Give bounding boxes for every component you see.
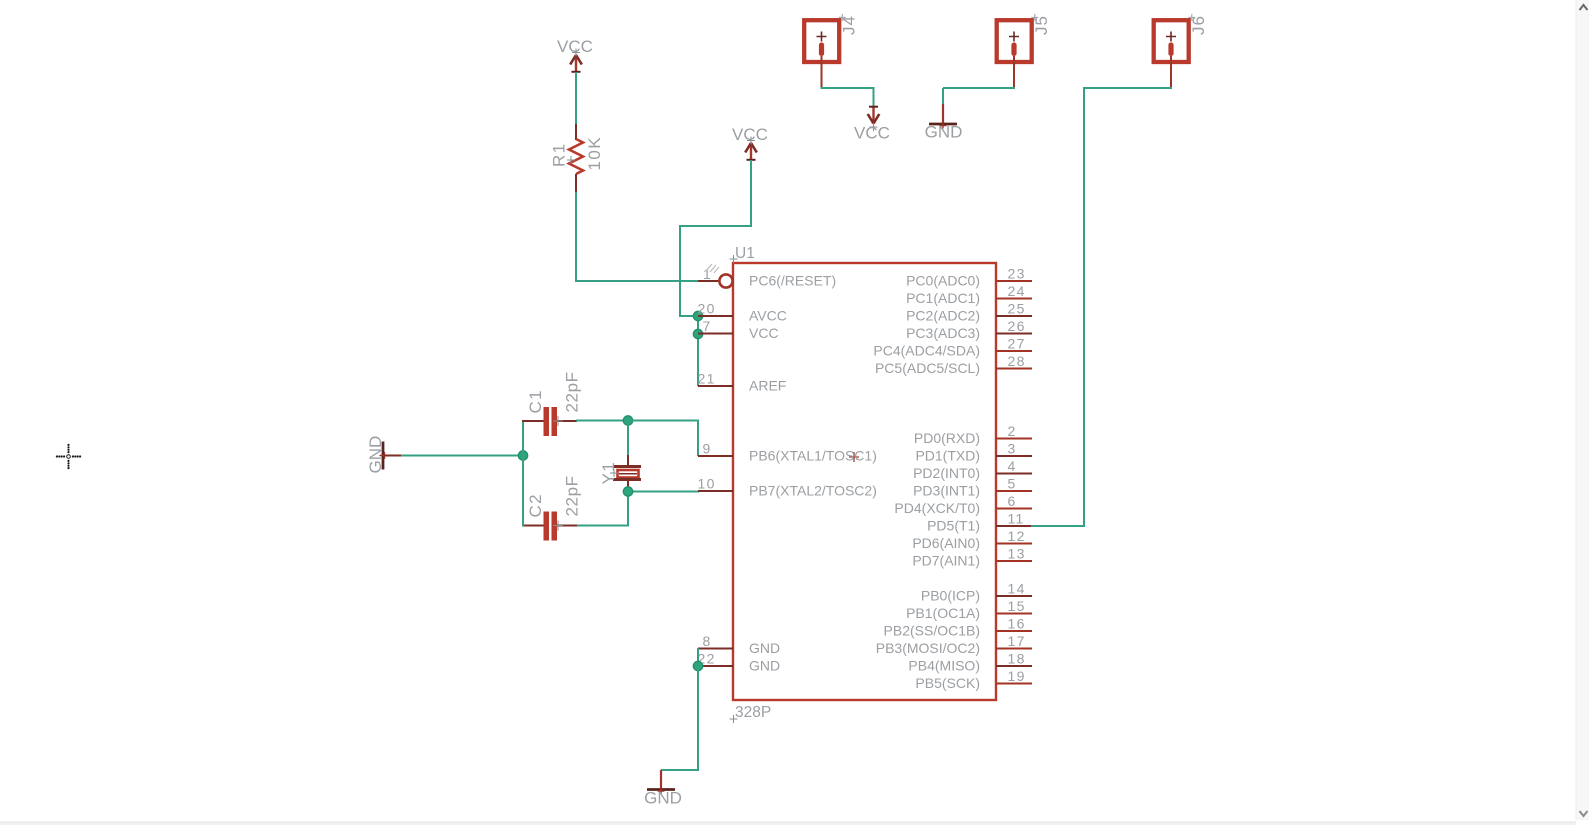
svg-text:VCC: VCC: [732, 125, 768, 144]
svg-text:PC0(ADC0): PC0(ADC0): [906, 273, 980, 289]
svg-text:PD4(XCK/T0): PD4(XCK/T0): [894, 500, 980, 516]
svg-text:13: 13: [1008, 546, 1026, 562]
pin 22 stub: [698, 665, 733, 667]
capacitor C2: [522, 525, 544, 527]
svg-text:10K: 10K: [585, 136, 604, 170]
svg-text:R1: R1: [550, 142, 569, 167]
pin 17 stub: [996, 648, 1032, 650]
pin 4 stub: [996, 473, 1032, 475]
svg-text:3: 3: [1008, 441, 1017, 457]
junction node pin7: [693, 329, 702, 338]
svg-text:PC6(/RESET): PC6(/RESET): [749, 273, 836, 289]
power VCC symbol (below J4): [872, 106, 874, 124]
ground GND (bottom): [660, 770, 662, 789]
svg-text:14: 14: [1008, 581, 1026, 597]
pin 23 stub: [996, 280, 1032, 282]
svg-text:8: 8: [703, 633, 712, 649]
wire J6 to pin 11 PD5(T1): [1084, 87, 1172, 89]
svg-text:VCC: VCC: [854, 124, 890, 143]
wire VCC to R1: [575, 72, 577, 125]
svg-text:PC1(ADC1): PC1(ADC1): [906, 290, 980, 306]
svg-text:PD5(T1): PD5(T1): [927, 518, 980, 534]
wire C2 left up to junction: [522, 455, 524, 527]
svg-text:VCC: VCC: [749, 325, 779, 341]
wire junction up to C1: [522, 420, 524, 457]
svg-text:PB6(XTAL1/TOSC1): PB6(XTAL1/TOSC1): [749, 448, 877, 464]
svg-text:C1: C1: [526, 389, 545, 414]
pin 9 stub: [698, 455, 733, 457]
svg-text:VCC: VCC: [557, 37, 593, 56]
wire VCC to AVCC junction: [750, 160, 752, 227]
pin 15 stub: [996, 613, 1032, 615]
wire pin22 junction down to GND: [697, 666, 699, 771]
junction node C1/C2 left: [518, 451, 527, 460]
connector J4: [804, 20, 839, 62]
svg-text:GND: GND: [749, 658, 780, 674]
pin 10 stub: [698, 490, 733, 492]
svg-text:PD2(INT0): PD2(INT0): [913, 465, 980, 481]
U1 origin cross: [849, 452, 859, 462]
power VCC symbol (above U1): [750, 143, 752, 161]
pin 19 stub: [996, 683, 1032, 685]
svg-text:AVCC: AVCC: [749, 308, 787, 324]
pin 8 stub: [698, 648, 733, 650]
pin 7 stub: [698, 333, 733, 335]
pin 2 stub: [996, 438, 1032, 440]
svg-text:GND: GND: [366, 436, 385, 474]
svg-text:22pF: 22pF: [563, 475, 582, 516]
svg-text:PB2(SS/OC1B): PB2(SS/OC1B): [884, 623, 980, 639]
svg-text:16: 16: [1008, 616, 1026, 632]
connector J5: [997, 20, 1032, 62]
svg-text:PD6(AIN0): PD6(AIN0): [912, 535, 980, 551]
wire GND to C1/C2 junction: [401, 455, 523, 457]
svg-text:21: 21: [698, 371, 716, 387]
svg-text:4: 4: [1008, 458, 1017, 474]
wire junction pin20 to pin7: [697, 316, 699, 334]
svg-text:J4: J4: [840, 15, 859, 35]
wire pin7 to AREF: [697, 334, 699, 386]
svg-text:PC2(ADC2): PC2(ADC2): [906, 308, 980, 324]
op-amp U1 ATmega328P body: [733, 263, 996, 700]
svg-text:PB7(XTAL2/TOSC2): PB7(XTAL2/TOSC2): [749, 483, 877, 499]
svg-text:PD1(TXD): PD1(TXD): [915, 448, 980, 464]
svg-text:PB4(MISO): PB4(MISO): [908, 658, 980, 674]
svg-text:5: 5: [1008, 476, 1017, 492]
resistor R1: [575, 124, 577, 140]
scrollbar down chevron: [1580, 811, 1588, 816]
svg-text:C2: C2: [526, 493, 545, 518]
pin 25 stub: [996, 315, 1032, 317]
pin 21 stub: [698, 385, 733, 387]
scrollbar vertical track: [1576, 0, 1589, 820]
svg-text:27: 27: [1008, 336, 1026, 352]
svg-text:24: 24: [1008, 283, 1026, 299]
pin 28 stub: [996, 368, 1032, 370]
pin 3 stub: [996, 455, 1032, 457]
svg-text:9: 9: [703, 441, 712, 457]
wire crystal bottom to pin 10: [628, 491, 699, 493]
pin 24 stub: [996, 298, 1032, 300]
pin 20 stub: [698, 315, 733, 317]
pin 18 stub: [996, 665, 1032, 667]
svg-text:23: 23: [1008, 266, 1026, 282]
svg-text:U1: U1: [735, 245, 755, 262]
svg-text:PD0(RXD): PD0(RXD): [914, 430, 980, 446]
svg-text:20: 20: [698, 301, 716, 317]
svg-text:328P: 328P: [735, 704, 771, 721]
svg-text:28: 28: [1008, 353, 1026, 369]
svg-text:J5: J5: [1032, 15, 1051, 35]
svg-text:18: 18: [1008, 651, 1026, 667]
pin 27 stub: [996, 350, 1032, 352]
pin 12 stub: [996, 543, 1032, 545]
svg-text:6: 6: [1008, 493, 1017, 509]
wire junction to pin 9: [628, 420, 699, 422]
pin 5 stub: [996, 490, 1032, 492]
crystal Y1: [627, 455, 629, 466]
connector J6: [1154, 20, 1189, 62]
wire junction down to C2: [627, 492, 629, 527]
scrollbar up chevron: [1580, 5, 1588, 10]
junction node pin22: [693, 661, 702, 670]
svg-text:J6: J6: [1189, 15, 1208, 35]
svg-text:19: 19: [1008, 668, 1026, 684]
wire C1 to crystal junction: [576, 420, 629, 422]
svg-text:12: 12: [1008, 528, 1026, 544]
wire crystal top: [627, 421, 629, 457]
pin 26 stub: [996, 333, 1032, 335]
ground GND (left of C1/C2): [382, 442, 385, 470]
scrollbar horizontal strip: [0, 822, 1576, 825]
svg-text:17: 17: [1008, 633, 1026, 649]
junction node pin20: [693, 311, 702, 320]
pin 14 stub: [996, 595, 1032, 597]
wire J4 to VCC: [821, 87, 875, 89]
svg-text:PD3(INT1): PD3(INT1): [913, 483, 980, 499]
wire pin8 to pin22 junction: [697, 648, 699, 666]
svg-text:PC4(ADC4/SDA): PC4(ADC4/SDA): [873, 343, 980, 359]
svg-text:PB0(ICP): PB0(ICP): [921, 588, 980, 604]
wire R1 to pin 1: [575, 192, 577, 281]
wire J5 to GND: [943, 87, 1015, 89]
cursor crosshair: [63, 455, 65, 457]
pin 13 stub: [996, 560, 1032, 562]
svg-text:PD7(AIN1): PD7(AIN1): [912, 553, 980, 569]
pin 1 hatch marks: [706, 264, 719, 273]
pin 1 PC6(/RESET) stub: [698, 280, 719, 282]
junction node XTAL1: [623, 416, 632, 425]
svg-text:11: 11: [1008, 511, 1025, 527]
svg-text:GND: GND: [749, 640, 780, 656]
svg-text:PB3(MOSI/OC2): PB3(MOSI/OC2): [876, 640, 980, 656]
svg-text:10: 10: [698, 476, 716, 492]
svg-text:AREF: AREF: [749, 378, 786, 394]
svg-text:PC3(ADC3): PC3(ADC3): [906, 325, 980, 341]
svg-text:25: 25: [1008, 301, 1026, 317]
svg-text:7: 7: [703, 318, 712, 334]
svg-text:GND: GND: [925, 123, 963, 142]
pin 6 stub: [996, 508, 1032, 510]
svg-text:PB5(SCK): PB5(SCK): [915, 675, 980, 691]
svg-text:GND: GND: [644, 789, 682, 808]
pin 11 stub: [996, 525, 1032, 527]
power VCC symbol (top left): [575, 55, 577, 73]
pin 16 stub: [996, 630, 1032, 632]
svg-text:2: 2: [1008, 423, 1017, 439]
svg-text:PB1(OC1A): PB1(OC1A): [906, 605, 980, 621]
svg-text:PC5(ADC5/SCL): PC5(ADC5/SCL): [875, 360, 980, 376]
capacitor C1: [522, 420, 544, 422]
svg-text:15: 15: [1008, 598, 1026, 614]
svg-text:22pF: 22pF: [563, 371, 582, 412]
svg-text:26: 26: [1008, 318, 1026, 334]
ground GND (below J5): [942, 104, 944, 123]
